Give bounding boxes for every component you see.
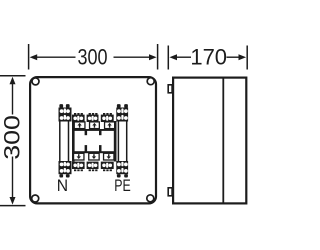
dimension 300 vertical: line bottom segment (12, 157, 14, 202)
terminal module: divider 2 bottom stub (99, 145, 102, 152)
terminal module: left wall (72, 121, 75, 162)
dimension 170 horizontal: right extension line (246, 46, 248, 70)
terminal module: divider 1 bottom stub (85, 145, 88, 152)
svg-text:300: 300 (1, 115, 25, 160)
dimension 300 vertical: top extension line (0, 75, 26, 77)
bottom clamp box 2 with down arrow (89, 153, 99, 160)
terminal module: divider 2 top stub (99, 129, 102, 135)
svg-text:N: N (57, 176, 68, 194)
N strip top block mounting tabs (59, 104, 63, 108)
dimension 300 horizontal: right extension line (157, 44, 159, 70)
enclosure side view: cover split line (222, 78, 224, 204)
terminal module: divider 1 top stub (85, 129, 88, 135)
dimension 300 horizontal: line right segment (114, 56, 154, 58)
top clamp box 1 with up arrow (74, 122, 85, 129)
dimension 170 horizontal: line left segment (175, 56, 191, 58)
front view corner screw bottom-right (147, 195, 154, 202)
enclosure side view: body (173, 78, 246, 204)
dimension 170 horizontal: left arrow (169, 54, 177, 60)
dimension 300 vertical: bottom extension line (0, 205, 26, 207)
bottom terminal row block 3 (101, 162, 114, 172)
dimension 300 horizontal: left extension line (28, 44, 30, 70)
PE strip top block mounting tabs (117, 104, 121, 108)
PE busbar strip: bottom terminal block (116, 161, 128, 174)
N busbar strip: bottom terminal block (59, 161, 72, 174)
svg-text:170: 170 (190, 45, 227, 70)
dimension 170 horizontal: left extension line (167, 46, 169, 70)
svg-text:300: 300 (77, 46, 107, 70)
dimension 300 horizontal: right arrow (149, 54, 157, 60)
top clamp box 3 with up arrow (105, 122, 115, 129)
bottom clamp box 1 with down arrow (74, 153, 84, 160)
terminal module: top line (72, 129, 117, 131)
terminal module: right wall (114, 121, 117, 162)
enclosure side view: bottom latch (168, 188, 172, 196)
N busbar strip: rail (60, 120, 69, 162)
bottom terminal row block 2 (87, 162, 99, 172)
front view corner screw top-right (147, 78, 154, 85)
svg-text:PE: PE (114, 177, 131, 195)
top terminal row block 1 (72, 113, 85, 122)
dimension 170 horizontal: line right segment (227, 56, 241, 58)
top clamp box 2 with up arrow (90, 122, 100, 129)
top terminal row block 2 (87, 113, 99, 122)
dimension 300 vertical: up arrow (10, 77, 16, 85)
N busbar strip: top terminal block (59, 108, 72, 122)
dimension 300 horizontal: line left segment (33, 56, 76, 58)
terminal module: bottom line (72, 151, 117, 153)
PE busbar strip: rail (118, 120, 126, 162)
PE busbar strip: top terminal block (116, 108, 128, 122)
dimension 170 horizontal: right arrow (239, 54, 247, 60)
bottom clamp box 3 with down arrow (104, 153, 114, 160)
N strip bottom block mounting tabs (59, 174, 63, 177)
dimension 300 horizontal: left arrow (30, 54, 38, 60)
dimension 300 vertical: line top segment (12, 80, 14, 115)
dimension 300 vertical: down arrow (10, 197, 16, 205)
top terminal row block 3 (101, 113, 114, 122)
front view corner screw bottom-left (32, 195, 39, 202)
enclosure front view: outer body (30, 77, 156, 203)
PE strip bottom block mounting tabs (117, 174, 121, 177)
enclosure side view: top latch (168, 85, 172, 93)
bottom terminal row block 1 (72, 162, 85, 172)
front view corner screw top-left (32, 78, 39, 85)
